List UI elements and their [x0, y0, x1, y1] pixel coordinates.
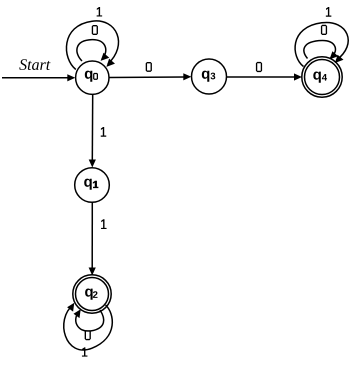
- wire q3 to q4 shaft: [227, 76, 297, 78]
- label 0 on q4 inner self-loop: [322, 26, 326, 34]
- label 0 on q2 inner self-loop: [86, 332, 90, 339]
- arrowhead q2 inner loop: [74, 309, 81, 318]
- label 0 on edge q3-q4: [257, 63, 261, 71]
- state label q1 letter: [84, 179, 92, 190]
- state q3 circle: [192, 59, 227, 94]
- label 1 on edge q1-q2: [101, 219, 107, 229]
- arrowhead q1 to q2: [89, 268, 96, 276]
- arrowhead q0 inner loop: [101, 53, 110, 61]
- state label q0 subscript 0: [93, 73, 98, 80]
- label 1 on q4 outer self-loop: [326, 7, 332, 17]
- wire q0 to q3 shaft: [109, 76, 185, 79]
- label 1 on edge q0-q1: [101, 127, 107, 137]
- arrowhead q0 to q1: [89, 160, 96, 168]
- label 0 on q0 inner self-loop: [93, 26, 97, 33]
- state label q4 subscript 4: [322, 74, 327, 81]
- state q1 circle: [75, 168, 110, 203]
- state q2 accepting inner circle: [76, 278, 109, 311]
- self-loop q4 outer for 1: [295, 22, 348, 66]
- state label q3 subscript 3: [211, 73, 216, 80]
- wire q1 to q2 shaft: [91, 202, 93, 269]
- label 1 on q0 outer self-loop: [97, 7, 103, 17]
- state label q1 subscript 1: [93, 181, 99, 188]
- self-loop q2 outer for 1: [64, 305, 113, 350]
- state label q3 letter: [202, 71, 210, 82]
- state label q4 letter: [313, 72, 321, 83]
- state label q2 letter: [85, 289, 93, 300]
- state q4 accepting outer circle: [302, 57, 342, 97]
- state label q0 letter: [85, 71, 93, 82]
- wire start arrow shaft: [2, 77, 69, 79]
- arrowhead q2 outer loop: [67, 303, 74, 312]
- label Start: [19, 59, 50, 70]
- state label q2 subscript 2: [93, 291, 98, 298]
- self-loop q2 inner for 0: [76, 310, 104, 331]
- arrowhead q3 to q4: [294, 73, 302, 80]
- arrowhead q4 outer loop: [335, 55, 344, 63]
- state q4 accepting inner circle: [305, 60, 340, 95]
- wire q0 to q1 shaft: [91, 94, 93, 161]
- state q0 circle: [76, 61, 109, 94]
- arrowhead q0 to q3: [183, 73, 191, 80]
- arrowhead q0 outer loop: [106, 59, 115, 67]
- label 1 on q2 outer self-loop: [82, 347, 88, 356]
- self-loop q0 inner for 0: [77, 40, 106, 61]
- arrowhead q4 inner loop: [330, 51, 339, 59]
- label 0 on edge q0-q3: [147, 63, 151, 70]
- state q2 accepting outer circle: [73, 275, 111, 313]
- arrowhead start to q0: [67, 74, 75, 81]
- self-loop q4 inner for 0: [304, 40, 336, 58]
- self-loop q0 outer for 1: [66, 21, 118, 70]
